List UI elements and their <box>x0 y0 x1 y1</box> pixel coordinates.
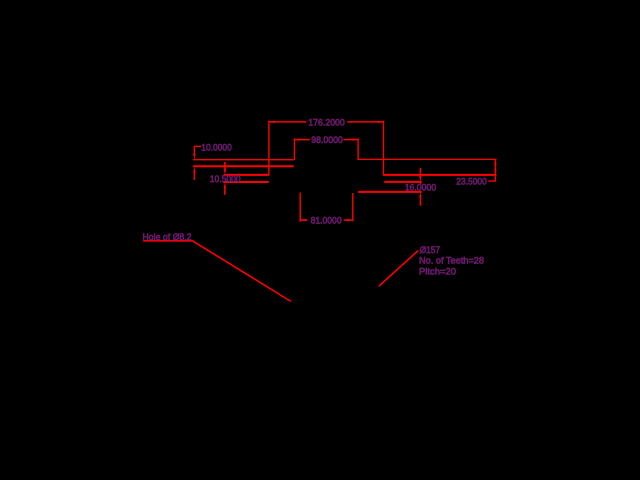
svg-text:23.5000: 23.5000 <box>456 177 487 187</box>
wire L3 right extension line <box>384 174 497 176</box>
dimension 16.0000 (vertical, right) <box>419 168 421 206</box>
leader gear callout <box>379 250 419 286</box>
wire L4 left extension line (y=182.0) <box>223 181 269 183</box>
svg-text:No. of Teeth=28: No. of Teeth=28 <box>419 256 484 266</box>
dimension 81.0000 <box>300 193 353 222</box>
dimension 176.2000 <box>269 121 384 176</box>
svg-text:10.5000: 10.5000 <box>210 174 241 184</box>
dimension 10.5000 (vertical, left of flange) <box>224 162 226 195</box>
svg-text:Pitch=20: Pitch=20 <box>419 267 456 277</box>
wire L5 right extension line (y=191.9) <box>358 191 422 193</box>
svg-text:Ø157: Ø157 <box>420 245 441 255</box>
svg-text:16.0000: 16.0000 <box>405 182 437 192</box>
svg-text:98.0000: 98.0000 <box>311 135 343 145</box>
leader hole callout <box>143 241 291 302</box>
dimension 10.0000 (vertical, left) <box>193 146 201 180</box>
svg-text:Hole of Ø8.2: Hole of Ø8.2 <box>143 232 192 242</box>
svg-text:176.2000: 176.2000 <box>308 118 345 128</box>
wire L4 right extension line <box>384 181 421 183</box>
dimension 98.0000 <box>294 138 358 160</box>
wire L1 right extension line <box>358 158 496 160</box>
wire L2 left extension line (y=166.2) <box>193 165 294 167</box>
svg-text:10.0000: 10.0000 <box>201 142 232 152</box>
wire L1 left extension line (top edge level y=159.7) <box>193 159 294 161</box>
wire L3 left extension line (y=174.9) <box>224 174 269 176</box>
svg-text:81.0000: 81.0000 <box>311 215 342 225</box>
dimension 23.5000 (vertical, far right) <box>488 159 496 182</box>
